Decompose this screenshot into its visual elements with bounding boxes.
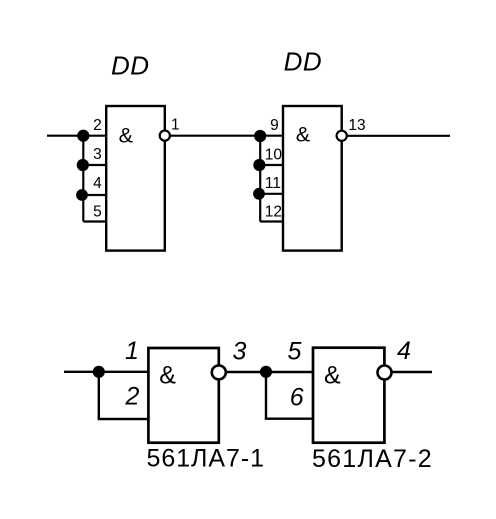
svg-text:3: 3 [93, 146, 102, 163]
wire: U2 pin 10 stub [260, 164, 283, 166]
U2 output inversion bubble (pin 13) [337, 131, 347, 141]
svg-text:1: 1 [125, 337, 139, 365]
wire: U1 input bus vertical [82, 136, 84, 222]
wire: 561LA7-2 pin 4 output net [393, 371, 433, 373]
wire: 561LA7-2 input bus vertical [265, 372, 267, 419]
wire: U1 pin 5 stub [83, 220, 106, 222]
svg-text:&: & [159, 362, 176, 390]
wire: U1 pin 3 stub [83, 164, 106, 166]
561LA7-1 output inversion bubble (pin 3) [212, 365, 226, 379]
wire: 561LA7-1 pin 3 to 561LA7-2 pin 5 [227, 371, 314, 373]
junction dot at 561LA7-1 pin 1 [93, 366, 105, 378]
wire: 561LA7-1 input bus vertical [98, 372, 100, 419]
svg-text:DD: DD [284, 47, 323, 77]
gate U2 body (NAND rectangle) [283, 106, 342, 251]
wire: U2 pin 12 stub [260, 220, 283, 222]
wire: U2 input bus vertical [259, 136, 261, 222]
junction dot at U2 pin 9 [254, 130, 266, 142]
wire: 561LA7-1 pin 2 stub [98, 418, 149, 420]
wire: U1 pin 1 to U2 pin 9 [171, 135, 283, 137]
svg-text:5: 5 [93, 204, 102, 221]
svg-text:2: 2 [93, 117, 102, 134]
svg-text:3: 3 [233, 337, 247, 365]
junction dot at U2 pin 10 [253, 159, 265, 171]
wire: U2 pin 13 output net [348, 135, 451, 137]
svg-text:1: 1 [171, 116, 180, 133]
svg-text:12: 12 [265, 204, 282, 221]
wire: U2 pin 11 stub [260, 193, 283, 195]
gate 561LA7-2 body (NAND rectangle) [313, 348, 384, 443]
junction dot at U1 pin 3 [77, 159, 89, 171]
svg-text:6: 6 [290, 384, 304, 412]
svg-text:561ЛА7-1: 561ЛА7-1 [147, 444, 266, 472]
svg-text:10: 10 [265, 147, 283, 164]
svg-text:2: 2 [125, 383, 140, 411]
svg-text:&: & [119, 123, 133, 147]
junction dot at U1 pin 4 [76, 189, 88, 201]
561LA7-2 output inversion bubble (pin 4) [378, 366, 392, 380]
junction dot at U1 pin 2 [77, 130, 89, 142]
svg-text:13: 13 [348, 117, 365, 134]
svg-text:4: 4 [397, 337, 411, 365]
wire: input net into gate 561LA7-1 pin 1 [64, 371, 148, 373]
gate 561LA7-1 body (NAND rectangle) [148, 348, 218, 443]
junction dot at 561LA7-2 pin 5 [260, 366, 272, 378]
svg-text:11: 11 [265, 175, 281, 192]
svg-text:4: 4 [93, 175, 102, 192]
svg-text:&: & [296, 122, 310, 146]
svg-text:DD: DD [111, 50, 150, 80]
wire: U1 pin 4 stub [83, 194, 106, 196]
svg-text:5: 5 [288, 337, 302, 365]
svg-text:&: & [324, 362, 341, 390]
wire: 561LA7-2 pin 6 stub [265, 418, 313, 420]
junction dot at U2 pin 11 [253, 188, 265, 200]
svg-text:9: 9 [270, 117, 279, 134]
svg-text:561ЛА7-2: 561ЛА7-2 [312, 445, 433, 473]
U1 output inversion bubble (pin 1) [160, 131, 170, 141]
gate U1 body (NAND rectangle) [106, 106, 165, 251]
wire: input net into U1 pin 2 [47, 135, 106, 137]
